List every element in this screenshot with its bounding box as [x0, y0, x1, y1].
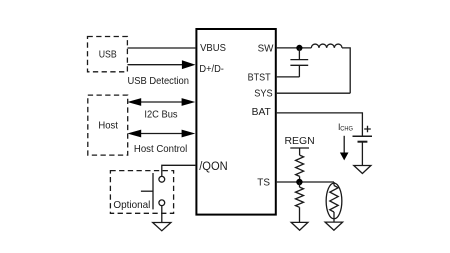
pin SYS [254, 89, 273, 100]
op-amp U1 (charger IC body) [196, 29, 275, 215]
svg-text:SYS: SYS [254, 89, 273, 100]
current arrow ICHG [340, 136, 349, 161]
label + (battery positive) [364, 126, 371, 132]
svg-text:REGN: REGN [285, 136, 315, 147]
wire BAT [277, 113, 363, 136]
pin BAT [252, 107, 272, 118]
Optional box [110, 171, 173, 214]
inductor L1 [311, 44, 350, 93]
svg-text:VBUS: VBUS [200, 43, 226, 54]
node TS junction [296, 179, 302, 185]
capacitor BTST (bootstrap) [290, 48, 308, 77]
wire SYS [277, 92, 350, 94]
wire Host Control (double arrow) [127, 130, 195, 138]
svg-text:Host: Host [98, 120, 118, 131]
label USB [99, 49, 117, 60]
thermistor RT1 [326, 182, 342, 222]
label ICHG [338, 122, 353, 132]
ground (thermistor) [325, 222, 343, 230]
wire D+/D- (USB detection, arrow into IC) [128, 60, 196, 69]
pin D+/D- [199, 64, 224, 75]
svg-text:TS: TS [257, 177, 270, 188]
pin SW [258, 44, 274, 55]
label Host Control [134, 144, 187, 155]
svg-text:USB: USB [99, 49, 117, 60]
svg-text:SW: SW [258, 44, 274, 55]
wire SW [277, 47, 312, 49]
resistor R1 (REGN to TS) [296, 155, 304, 182]
node SW junction [296, 45, 302, 51]
battery [353, 136, 373, 165]
svg-text:/QON: /QON [199, 161, 228, 173]
label REGN [285, 136, 315, 147]
ground (battery) [354, 166, 371, 174]
svg-text:I2C Bus: I2C Bus [144, 110, 177, 121]
ground (pushbutton) [153, 223, 171, 231]
wire TS [277, 181, 334, 183]
svg-text:BTST: BTST [248, 73, 272, 84]
USB box [88, 37, 128, 72]
svg-text:USB Detection: USB Detection [128, 76, 190, 87]
resistor R2 (TS to ground) [296, 182, 304, 222]
ground (R2) [291, 222, 308, 230]
Host box [88, 95, 128, 155]
label USB Detection [128, 76, 190, 87]
pin BTST [248, 73, 272, 84]
svg-text:Host Control: Host Control [134, 144, 187, 155]
svg-text:BAT: BAT [252, 107, 272, 118]
svg-text:D+/D-: D+/D- [199, 64, 224, 75]
pushbutton S1 [141, 173, 165, 209]
label Host [98, 120, 118, 131]
svg-text:CHG: CHG [340, 126, 353, 133]
pin TS [257, 177, 270, 188]
label I2C Bus [144, 110, 177, 121]
pin /QON [199, 161, 228, 173]
wire I2C bus (double arrow) [127, 98, 195, 106]
wire /QON [162, 165, 196, 176]
wire VBUS [128, 47, 196, 49]
wire BTST [277, 76, 300, 78]
pin VBUS [200, 43, 226, 54]
node REGN rail [290, 148, 309, 155]
svg-text:Optional: Optional [113, 200, 150, 211]
label Optional [113, 200, 150, 211]
wire button to ground [161, 206, 163, 222]
